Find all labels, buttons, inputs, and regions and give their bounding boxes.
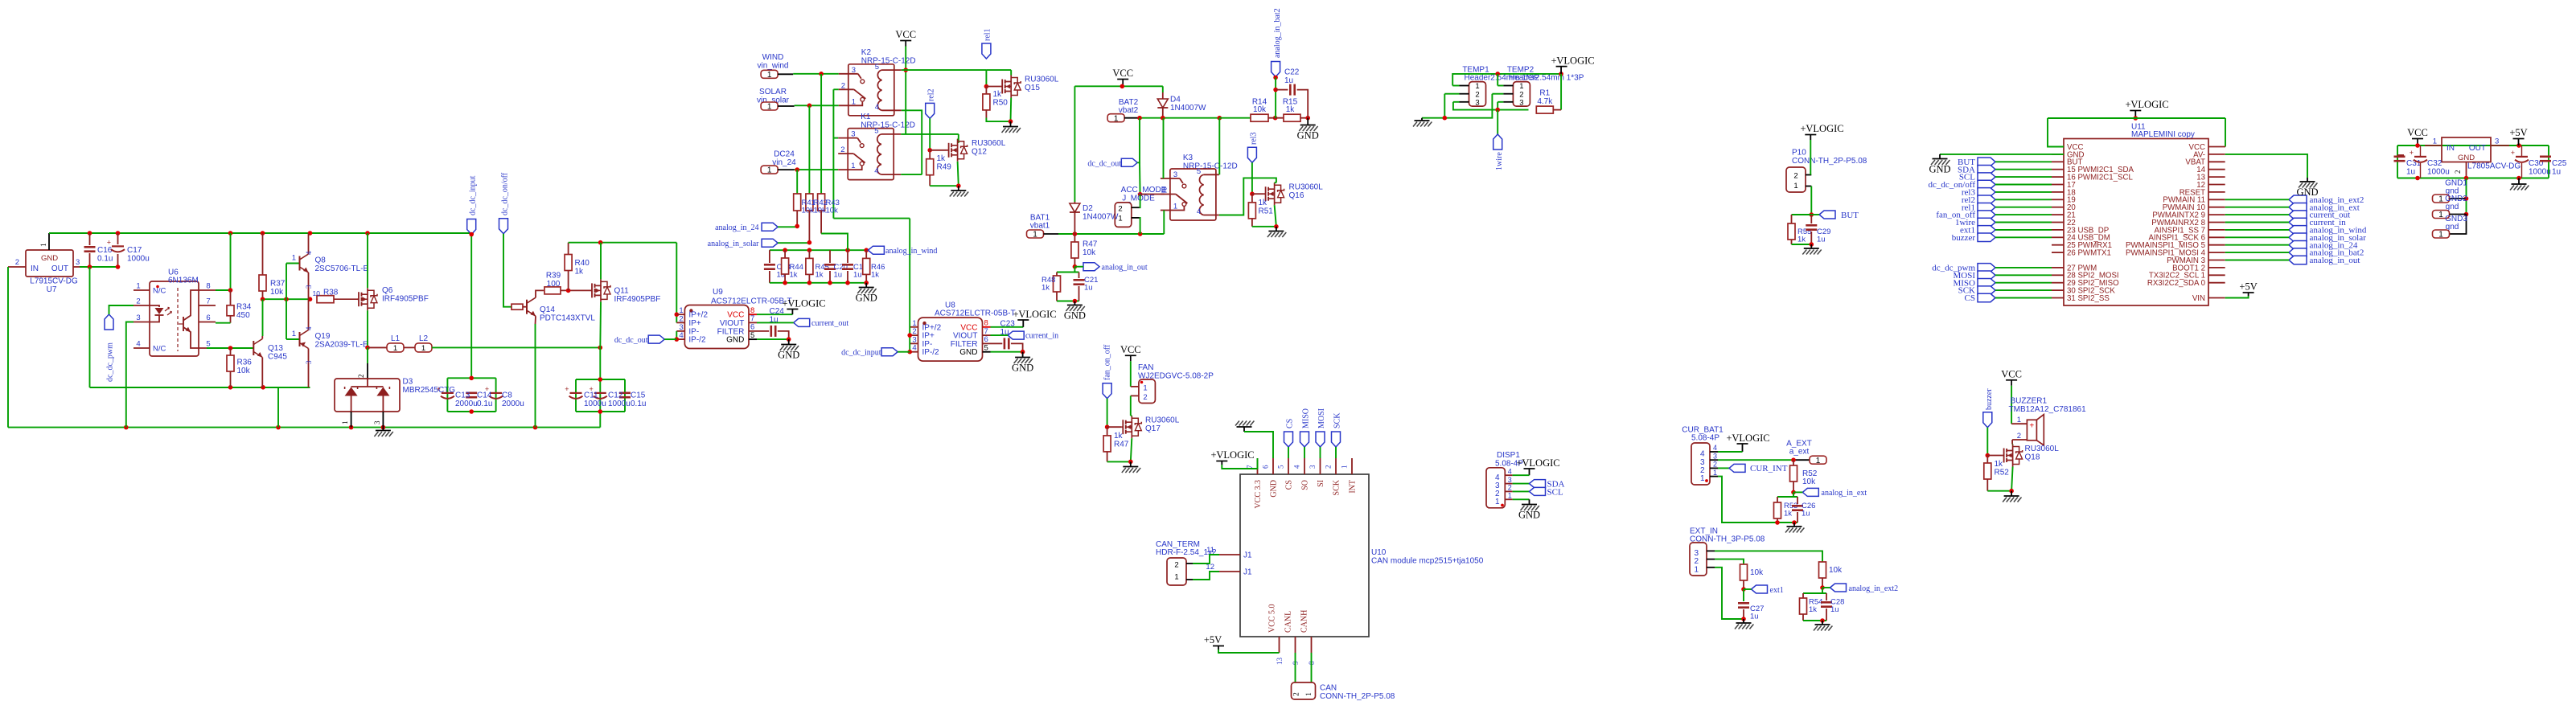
svg-text:R38: R38 xyxy=(323,289,339,297)
svg-text:R37: R37 xyxy=(270,280,286,289)
svg-text:R52: R52 xyxy=(1995,469,2010,477)
svg-text:10k: 10k xyxy=(270,288,284,297)
svg-text:1: 1 xyxy=(2438,211,2443,219)
svg-text:J_MODE: J_MODE xyxy=(1122,195,1155,203)
svg-text:Q14: Q14 xyxy=(540,305,555,314)
svg-text:buzzer: buzzer xyxy=(1952,233,1976,243)
svg-text:1k: 1k xyxy=(871,271,879,280)
svg-text:MISO: MISO xyxy=(1301,408,1310,428)
svg-text:dc_dc_pwm: dc_dc_pwm xyxy=(106,342,115,382)
svg-text:1u: 1u xyxy=(2552,168,2561,177)
svg-text:RU3060L: RU3060L xyxy=(1025,76,1059,84)
svg-text:1k: 1k xyxy=(937,154,947,163)
svg-text:13: 13 xyxy=(1276,658,1284,666)
svg-text:1: 1 xyxy=(767,71,772,80)
svg-text:C11: C11 xyxy=(584,391,598,400)
svg-text:3: 3 xyxy=(1475,99,1479,108)
svg-text:analog_in_wind: analog_in_wind xyxy=(885,247,937,256)
svg-text:C16: C16 xyxy=(97,246,113,255)
svg-text:26 PWMTX1: 26 PWMTX1 xyxy=(2067,249,2111,258)
svg-text:10k: 10k xyxy=(1802,477,1816,486)
svg-text:GND: GND xyxy=(778,350,799,361)
svg-text:+5V: +5V xyxy=(2239,281,2257,293)
svg-text:analog_in_ext2: analog_in_ext2 xyxy=(1849,584,1899,593)
svg-text:1: 1 xyxy=(1700,474,1705,483)
svg-text:2: 2 xyxy=(357,375,365,379)
svg-text:CAN module mcp2515+tja1050: CAN module mcp2515+tja1050 xyxy=(1371,557,1484,566)
svg-text:L7915CV-DG: L7915CV-DG xyxy=(30,277,78,286)
svg-text:4: 4 xyxy=(875,103,879,112)
svg-text:4: 4 xyxy=(874,167,878,176)
svg-text:VIN: VIN xyxy=(2192,294,2205,303)
svg-text:1u: 1u xyxy=(853,271,862,280)
svg-text:C23: C23 xyxy=(1000,320,1016,329)
svg-text:SCK: SCK xyxy=(1333,479,1341,495)
svg-text:1: 1 xyxy=(2433,137,2437,146)
svg-text:1: 1 xyxy=(1143,384,1147,393)
svg-text:J1: J1 xyxy=(1243,568,1252,577)
svg-text:1k: 1k xyxy=(1797,236,1806,244)
svg-text:2: 2 xyxy=(1174,561,1178,570)
svg-text:1: 1 xyxy=(1033,231,1037,240)
svg-text:3: 3 xyxy=(1713,452,1717,460)
svg-text:TMB12A12_C781861: TMB12A12_C781861 xyxy=(2009,405,2087,414)
svg-text:L2: L2 xyxy=(419,334,429,343)
svg-text:1: 1 xyxy=(292,254,296,263)
svg-text:Q19: Q19 xyxy=(315,332,331,341)
svg-text:SOLAR: SOLAR xyxy=(759,88,787,96)
svg-text:Q13: Q13 xyxy=(268,344,283,353)
svg-text:Q17: Q17 xyxy=(1145,424,1161,433)
svg-text:IP+: IP+ xyxy=(688,319,700,328)
svg-text:analog_in_24: analog_in_24 xyxy=(715,223,758,232)
svg-text:3: 3 xyxy=(305,360,313,364)
svg-text:C24: C24 xyxy=(770,307,785,316)
svg-text:4: 4 xyxy=(1197,207,1201,216)
svg-text:GND: GND xyxy=(959,348,977,357)
svg-text:10k: 10k xyxy=(237,367,251,375)
svg-text:100: 100 xyxy=(547,280,561,289)
svg-text:vbat1: vbat1 xyxy=(1030,222,1050,231)
svg-text:RU3060L: RU3060L xyxy=(2025,445,2060,453)
svg-text:RX3I2C2_SDA 0: RX3I2C2_SDA 0 xyxy=(2147,279,2206,288)
svg-text:0.1u: 0.1u xyxy=(477,400,492,408)
svg-text:ACC_MODE: ACC_MODE xyxy=(1121,186,1167,195)
svg-text:10k: 10k xyxy=(826,207,839,215)
svg-text:1u: 1u xyxy=(1750,613,1759,621)
svg-text:1k: 1k xyxy=(1286,105,1296,114)
svg-text:2: 2 xyxy=(15,258,19,267)
svg-text:IN: IN xyxy=(2447,144,2455,153)
svg-text:IP-/2: IP-/2 xyxy=(922,348,940,357)
svg-text:U7: U7 xyxy=(47,285,57,294)
svg-text:R34: R34 xyxy=(236,303,252,312)
svg-text:VLOGIC: VLOGIC xyxy=(1556,55,1594,67)
svg-text:7: 7 xyxy=(750,314,754,323)
svg-text:1k: 1k xyxy=(1809,605,1817,614)
svg-text:10k: 10k xyxy=(1083,248,1096,257)
svg-text:1u: 1u xyxy=(1830,605,1839,614)
svg-text:C14: C14 xyxy=(477,391,492,400)
svg-text:dc_dc_input: dc_dc_input xyxy=(469,175,478,215)
svg-text:4: 4 xyxy=(136,340,140,349)
svg-text:6N136M: 6N136M xyxy=(168,277,199,285)
svg-text:1000u: 1000u xyxy=(608,400,631,408)
svg-text:5: 5 xyxy=(750,331,754,340)
svg-text:1: 1 xyxy=(2017,416,2021,424)
svg-text:1: 1 xyxy=(1793,182,1797,191)
svg-text:Q11: Q11 xyxy=(614,287,630,296)
svg-text:1N4007W: 1N4007W xyxy=(1170,104,1206,113)
svg-text:analog_in_solar: analog_in_solar xyxy=(708,240,760,248)
svg-text:5: 5 xyxy=(206,340,210,349)
svg-text:Q16: Q16 xyxy=(1289,191,1304,200)
svg-text:1: 1 xyxy=(767,166,772,175)
svg-text:3: 3 xyxy=(136,314,140,322)
svg-text:C25: C25 xyxy=(2552,159,2567,168)
svg-text:VCC: VCC xyxy=(2407,127,2428,138)
svg-text:analog_in_ext: analog_in_ext xyxy=(1822,489,1867,498)
svg-text:R36: R36 xyxy=(237,359,253,367)
svg-text:Q15: Q15 xyxy=(1025,84,1040,92)
svg-text:1: 1 xyxy=(1114,114,1119,123)
svg-text:+: + xyxy=(2511,149,2515,157)
svg-text:2: 2 xyxy=(1293,692,1301,696)
svg-text:1: 1 xyxy=(2438,231,2443,240)
svg-text:2: 2 xyxy=(841,81,845,90)
svg-text:L7805ACV-DG: L7805ACV-DG xyxy=(2467,162,2521,171)
svg-text:Q8: Q8 xyxy=(315,256,327,265)
svg-text:R40: R40 xyxy=(575,259,590,268)
svg-text:analog_in_out: analog_in_out xyxy=(2310,256,2360,265)
svg-text:current_in: current_in xyxy=(1025,332,1058,341)
svg-text:Q12: Q12 xyxy=(972,148,987,157)
svg-text:1u: 1u xyxy=(1802,510,1810,518)
svg-text:WIND: WIND xyxy=(762,53,784,62)
svg-text:6: 6 xyxy=(206,314,210,322)
svg-text:GND: GND xyxy=(2296,186,2318,198)
svg-text:1k: 1k xyxy=(575,268,585,277)
svg-text:1k: 1k xyxy=(1041,284,1050,293)
svg-text:GND: GND xyxy=(2458,154,2475,162)
svg-text:1: 1 xyxy=(1305,692,1313,696)
svg-text:4: 4 xyxy=(912,344,916,353)
svg-text:rel3: rel3 xyxy=(1249,132,1258,145)
svg-text:2: 2 xyxy=(1508,484,1512,492)
svg-text:U10: U10 xyxy=(1371,548,1387,557)
svg-text:IP-/2: IP-/2 xyxy=(688,336,706,345)
svg-text:2: 2 xyxy=(2454,170,2462,174)
svg-text:1k: 1k xyxy=(1114,432,1124,441)
svg-text:CANL: CANL xyxy=(1284,611,1293,633)
svg-text:1: 1 xyxy=(1173,203,1177,211)
svg-text:D2: D2 xyxy=(1083,204,1093,213)
svg-text:GND: GND xyxy=(1518,510,1540,521)
svg-text:R47: R47 xyxy=(1114,441,1129,449)
svg-text:3: 3 xyxy=(852,66,856,75)
svg-text:GND: GND xyxy=(1270,480,1279,498)
svg-text:VLOGIC: VLOGIC xyxy=(1018,309,1056,320)
svg-text:R51: R51 xyxy=(1259,207,1274,216)
svg-text:+: + xyxy=(2410,149,2414,157)
svg-text:1u: 1u xyxy=(1084,284,1093,293)
svg-text:16 PWMI2C1_SCL: 16 PWMI2C1_SCL xyxy=(2067,174,2133,182)
svg-text:0.1u: 0.1u xyxy=(97,255,113,264)
svg-text:IRF4905PBF: IRF4905PBF xyxy=(614,295,661,304)
svg-text:3: 3 xyxy=(2495,137,2499,146)
svg-text:1k: 1k xyxy=(790,271,798,280)
svg-text:4: 4 xyxy=(1713,444,1717,452)
svg-text:ACS712ELCTR-05B-T: ACS712ELCTR-05B-T xyxy=(711,297,792,306)
svg-text:dc_dc_out: dc_dc_out xyxy=(614,336,648,345)
svg-text:10k: 10k xyxy=(814,207,827,215)
svg-text:VCC: VCC xyxy=(2001,368,2022,379)
svg-text:10k: 10k xyxy=(1829,566,1843,575)
svg-text:R49: R49 xyxy=(937,163,952,172)
svg-text:GND: GND xyxy=(1064,310,1086,322)
svg-text:10k: 10k xyxy=(1253,105,1267,114)
svg-text:2000u: 2000u xyxy=(502,400,524,408)
svg-text:GND: GND xyxy=(41,254,58,263)
svg-text:3: 3 xyxy=(305,285,313,289)
svg-text:+: + xyxy=(2029,422,2034,431)
svg-text:1wire: 1wire xyxy=(1495,152,1504,170)
svg-text:dc_dc_on/off: dc_dc_on/off xyxy=(501,172,510,215)
svg-text:INT: INT xyxy=(1349,480,1358,494)
svg-text:GND: GND xyxy=(1012,363,1033,374)
svg-text:R39: R39 xyxy=(546,272,561,281)
svg-text:analog_in_bat2: analog_in_bat2 xyxy=(1273,8,1282,58)
svg-text:1: 1 xyxy=(1816,457,1821,465)
svg-text:1000u: 1000u xyxy=(2529,168,2551,177)
svg-text:VLOGIC: VLOGIC xyxy=(1216,449,1254,461)
svg-text:BUT: BUT xyxy=(1841,211,1859,220)
svg-text:ACS712ELCTR-05B-T: ACS712ELCTR-05B-T xyxy=(935,309,1016,318)
svg-text:2: 2 xyxy=(1713,461,1717,469)
svg-text:4: 4 xyxy=(1508,467,1512,475)
svg-text:1u: 1u xyxy=(1284,76,1293,85)
svg-text:VCC: VCC xyxy=(1120,344,1141,355)
svg-text:1: 1 xyxy=(2438,195,2443,204)
svg-text:+: + xyxy=(437,385,441,393)
svg-text:IRF4905PBF: IRF4905PBF xyxy=(382,295,429,304)
svg-text:5: 5 xyxy=(875,63,879,72)
svg-text:J1: J1 xyxy=(1243,551,1252,560)
svg-text:1: 1 xyxy=(421,344,425,353)
svg-text:fan_on_off: fan_on_off xyxy=(1103,344,1112,380)
svg-text:CONN-TH_2P-P5.08: CONN-TH_2P-P5.08 xyxy=(1792,157,1867,166)
svg-text:+5V: +5V xyxy=(2509,127,2527,138)
svg-text:IN: IN xyxy=(31,264,39,273)
svg-text:2: 2 xyxy=(1143,393,1147,402)
svg-text:C13: C13 xyxy=(455,391,470,400)
svg-text:C12: C12 xyxy=(608,391,623,400)
svg-text:a_ext: a_ext xyxy=(1789,448,1810,457)
svg-text:SCK: SCK xyxy=(1333,412,1341,428)
svg-text:buzzer: buzzer xyxy=(1985,388,1994,410)
svg-text:BUZZER1: BUZZER1 xyxy=(2011,397,2048,406)
svg-text:CS: CS xyxy=(1285,419,1294,428)
svg-text:10k: 10k xyxy=(802,207,815,215)
svg-text:Q6: Q6 xyxy=(382,286,393,295)
svg-text:1: 1 xyxy=(767,103,772,112)
svg-text:2: 2 xyxy=(840,145,844,154)
svg-text:1: 1 xyxy=(341,421,349,425)
svg-text:K3: K3 xyxy=(1183,154,1194,162)
svg-text:P10: P10 xyxy=(1792,149,1806,158)
svg-text:10k: 10k xyxy=(1750,568,1764,577)
svg-text:7: 7 xyxy=(206,297,210,306)
svg-text:VCC: VCC xyxy=(895,29,916,40)
svg-text:5: 5 xyxy=(984,344,988,353)
svg-text:R47: R47 xyxy=(1083,240,1098,249)
svg-text:C22: C22 xyxy=(1284,68,1300,77)
svg-text:dc_dc_out: dc_dc_out xyxy=(1087,160,1121,169)
svg-text:C17: C17 xyxy=(127,246,142,255)
svg-text:11: 11 xyxy=(1206,546,1214,555)
svg-text:C945: C945 xyxy=(268,353,287,362)
svg-text:4: 4 xyxy=(305,326,313,330)
svg-text:SO: SO xyxy=(1301,480,1310,490)
svg-text:current_out: current_out xyxy=(811,319,848,328)
svg-text:1: 1 xyxy=(851,162,855,170)
svg-text:GND: GND xyxy=(726,336,744,345)
svg-text:1: 1 xyxy=(852,97,856,106)
svg-text:L1: L1 xyxy=(391,334,401,343)
svg-text:N/C: N/C xyxy=(153,345,166,354)
svg-text:1: 1 xyxy=(1118,215,1122,223)
svg-text:2: 2 xyxy=(679,314,683,323)
svg-text:1k: 1k xyxy=(1784,510,1792,518)
svg-text:2: 2 xyxy=(1163,186,1167,195)
svg-text:1k: 1k xyxy=(1259,199,1268,207)
svg-text:OUT: OUT xyxy=(51,264,68,273)
svg-text:VCC 3.3: VCC 3.3 xyxy=(1254,480,1263,509)
svg-text:CS: CS xyxy=(1965,293,1975,303)
svg-text:1: 1 xyxy=(1694,565,1699,574)
svg-text:2SC5706-TL-E: 2SC5706-TL-E xyxy=(315,264,369,273)
svg-text:VLOGIC: VLOGIC xyxy=(787,298,825,309)
svg-text:D3: D3 xyxy=(403,378,413,387)
svg-text:VIOUT: VIOUT xyxy=(720,319,745,328)
svg-text:5: 5 xyxy=(1197,167,1201,176)
svg-text:FAN: FAN xyxy=(1138,363,1153,372)
svg-text:GND: GND xyxy=(856,293,877,304)
svg-text:dc_dc_input: dc_dc_input xyxy=(841,349,881,358)
svg-text:Q18: Q18 xyxy=(2025,453,2040,462)
svg-text:1000u: 1000u xyxy=(2427,168,2450,177)
svg-text:3: 3 xyxy=(373,420,381,424)
svg-text:4: 4 xyxy=(1495,473,1500,482)
svg-text:rel1: rel1 xyxy=(984,28,992,41)
svg-text:2: 2 xyxy=(1793,172,1797,181)
svg-text:+5V: +5V xyxy=(1204,634,1222,645)
svg-text:vin_wind: vin_wind xyxy=(758,62,789,71)
svg-text:5.08-4P: 5.08-4P xyxy=(1691,434,1719,443)
svg-text:2: 2 xyxy=(2017,432,2021,441)
svg-text:1: 1 xyxy=(1713,469,1717,477)
svg-text:VLOGIC: VLOGIC xyxy=(1732,432,1769,444)
svg-text:450: 450 xyxy=(236,311,250,320)
svg-text:MOSI: MOSI xyxy=(1317,408,1326,428)
svg-text:3: 3 xyxy=(1508,476,1512,484)
svg-text:1: 1 xyxy=(292,330,296,338)
svg-text:3: 3 xyxy=(76,258,80,267)
svg-text:5: 5 xyxy=(874,127,878,136)
svg-text:SCL: SCL xyxy=(1547,488,1563,498)
svg-text:CS: CS xyxy=(1285,480,1294,490)
svg-text:VLOGIC: VLOGIC xyxy=(1522,457,1559,469)
svg-text:C8: C8 xyxy=(502,391,512,400)
svg-text:1000u: 1000u xyxy=(584,400,606,408)
svg-text:RU3060L: RU3060L xyxy=(1289,183,1324,192)
svg-text:PDTC143XTVL: PDTC143XTVL xyxy=(540,314,595,323)
svg-text:1000u: 1000u xyxy=(127,255,150,264)
svg-text:ext1: ext1 xyxy=(1770,586,1784,595)
svg-text:GND: GND xyxy=(1929,164,1950,175)
svg-text:1k: 1k xyxy=(1995,460,2004,469)
svg-text:1: 1 xyxy=(136,282,140,291)
svg-text:10: 10 xyxy=(313,289,321,297)
svg-text:VCC 5.0: VCC 5.0 xyxy=(1268,604,1277,633)
svg-text:3: 3 xyxy=(1309,465,1317,469)
svg-text:R50: R50 xyxy=(993,99,1009,108)
svg-text:31 SPI2_SS: 31 SPI2_SS xyxy=(2067,294,2110,303)
svg-text:U9: U9 xyxy=(713,288,723,297)
svg-text:1u: 1u xyxy=(834,271,843,280)
svg-text:1: 1 xyxy=(40,243,48,247)
svg-text:analog_in_out: analog_in_out xyxy=(1102,264,1148,273)
svg-text:C32: C32 xyxy=(2427,159,2442,168)
svg-text:4: 4 xyxy=(679,331,683,340)
svg-text:4.7k: 4.7k xyxy=(1537,97,1553,106)
svg-text:+: + xyxy=(107,239,111,247)
svg-text:1: 1 xyxy=(1174,573,1178,582)
svg-text:1N4007W: 1N4007W xyxy=(1083,213,1119,222)
svg-text:1: 1 xyxy=(1508,492,1512,500)
svg-text:D4: D4 xyxy=(1170,96,1181,105)
svg-text:2000u: 2000u xyxy=(455,400,478,408)
svg-text:1k: 1k xyxy=(993,90,1003,99)
svg-text:GND: GND xyxy=(1297,130,1319,141)
svg-text:CONN-TH_2P-P5.08: CONN-TH_2P-P5.08 xyxy=(1320,692,1395,701)
svg-text:RU3060L: RU3060L xyxy=(972,139,1006,148)
svg-text:3: 3 xyxy=(1173,170,1177,179)
svg-text:VLOGIC: VLOGIC xyxy=(1806,123,1843,134)
svg-text:K2: K2 xyxy=(861,48,872,57)
svg-text:6: 6 xyxy=(1262,465,1270,469)
svg-text:2SA2039-TL-E: 2SA2039-TL-E xyxy=(315,341,368,350)
svg-text:DC24: DC24 xyxy=(774,150,795,159)
svg-text:5: 5 xyxy=(1277,465,1285,469)
svg-text:8: 8 xyxy=(206,282,210,291)
svg-text:4: 4 xyxy=(305,251,313,255)
svg-text:OUT: OUT xyxy=(2469,144,2486,153)
svg-text:4: 4 xyxy=(1293,465,1301,469)
svg-text:1: 1 xyxy=(1495,498,1500,506)
svg-text:1: 1 xyxy=(393,344,397,353)
svg-text:2: 2 xyxy=(1118,205,1122,214)
svg-text:VLOGIC: VLOGIC xyxy=(2130,99,2168,110)
svg-text:1u: 1u xyxy=(2406,168,2415,177)
svg-text:2: 2 xyxy=(136,297,140,306)
svg-text:1k: 1k xyxy=(816,271,824,280)
svg-text:CANH: CANH xyxy=(1300,610,1309,633)
svg-text:VCC: VCC xyxy=(1112,68,1133,79)
svg-text:3: 3 xyxy=(851,130,855,139)
svg-text:RU3060L: RU3060L xyxy=(1145,416,1180,425)
svg-text:rel2: rel2 xyxy=(927,88,936,101)
